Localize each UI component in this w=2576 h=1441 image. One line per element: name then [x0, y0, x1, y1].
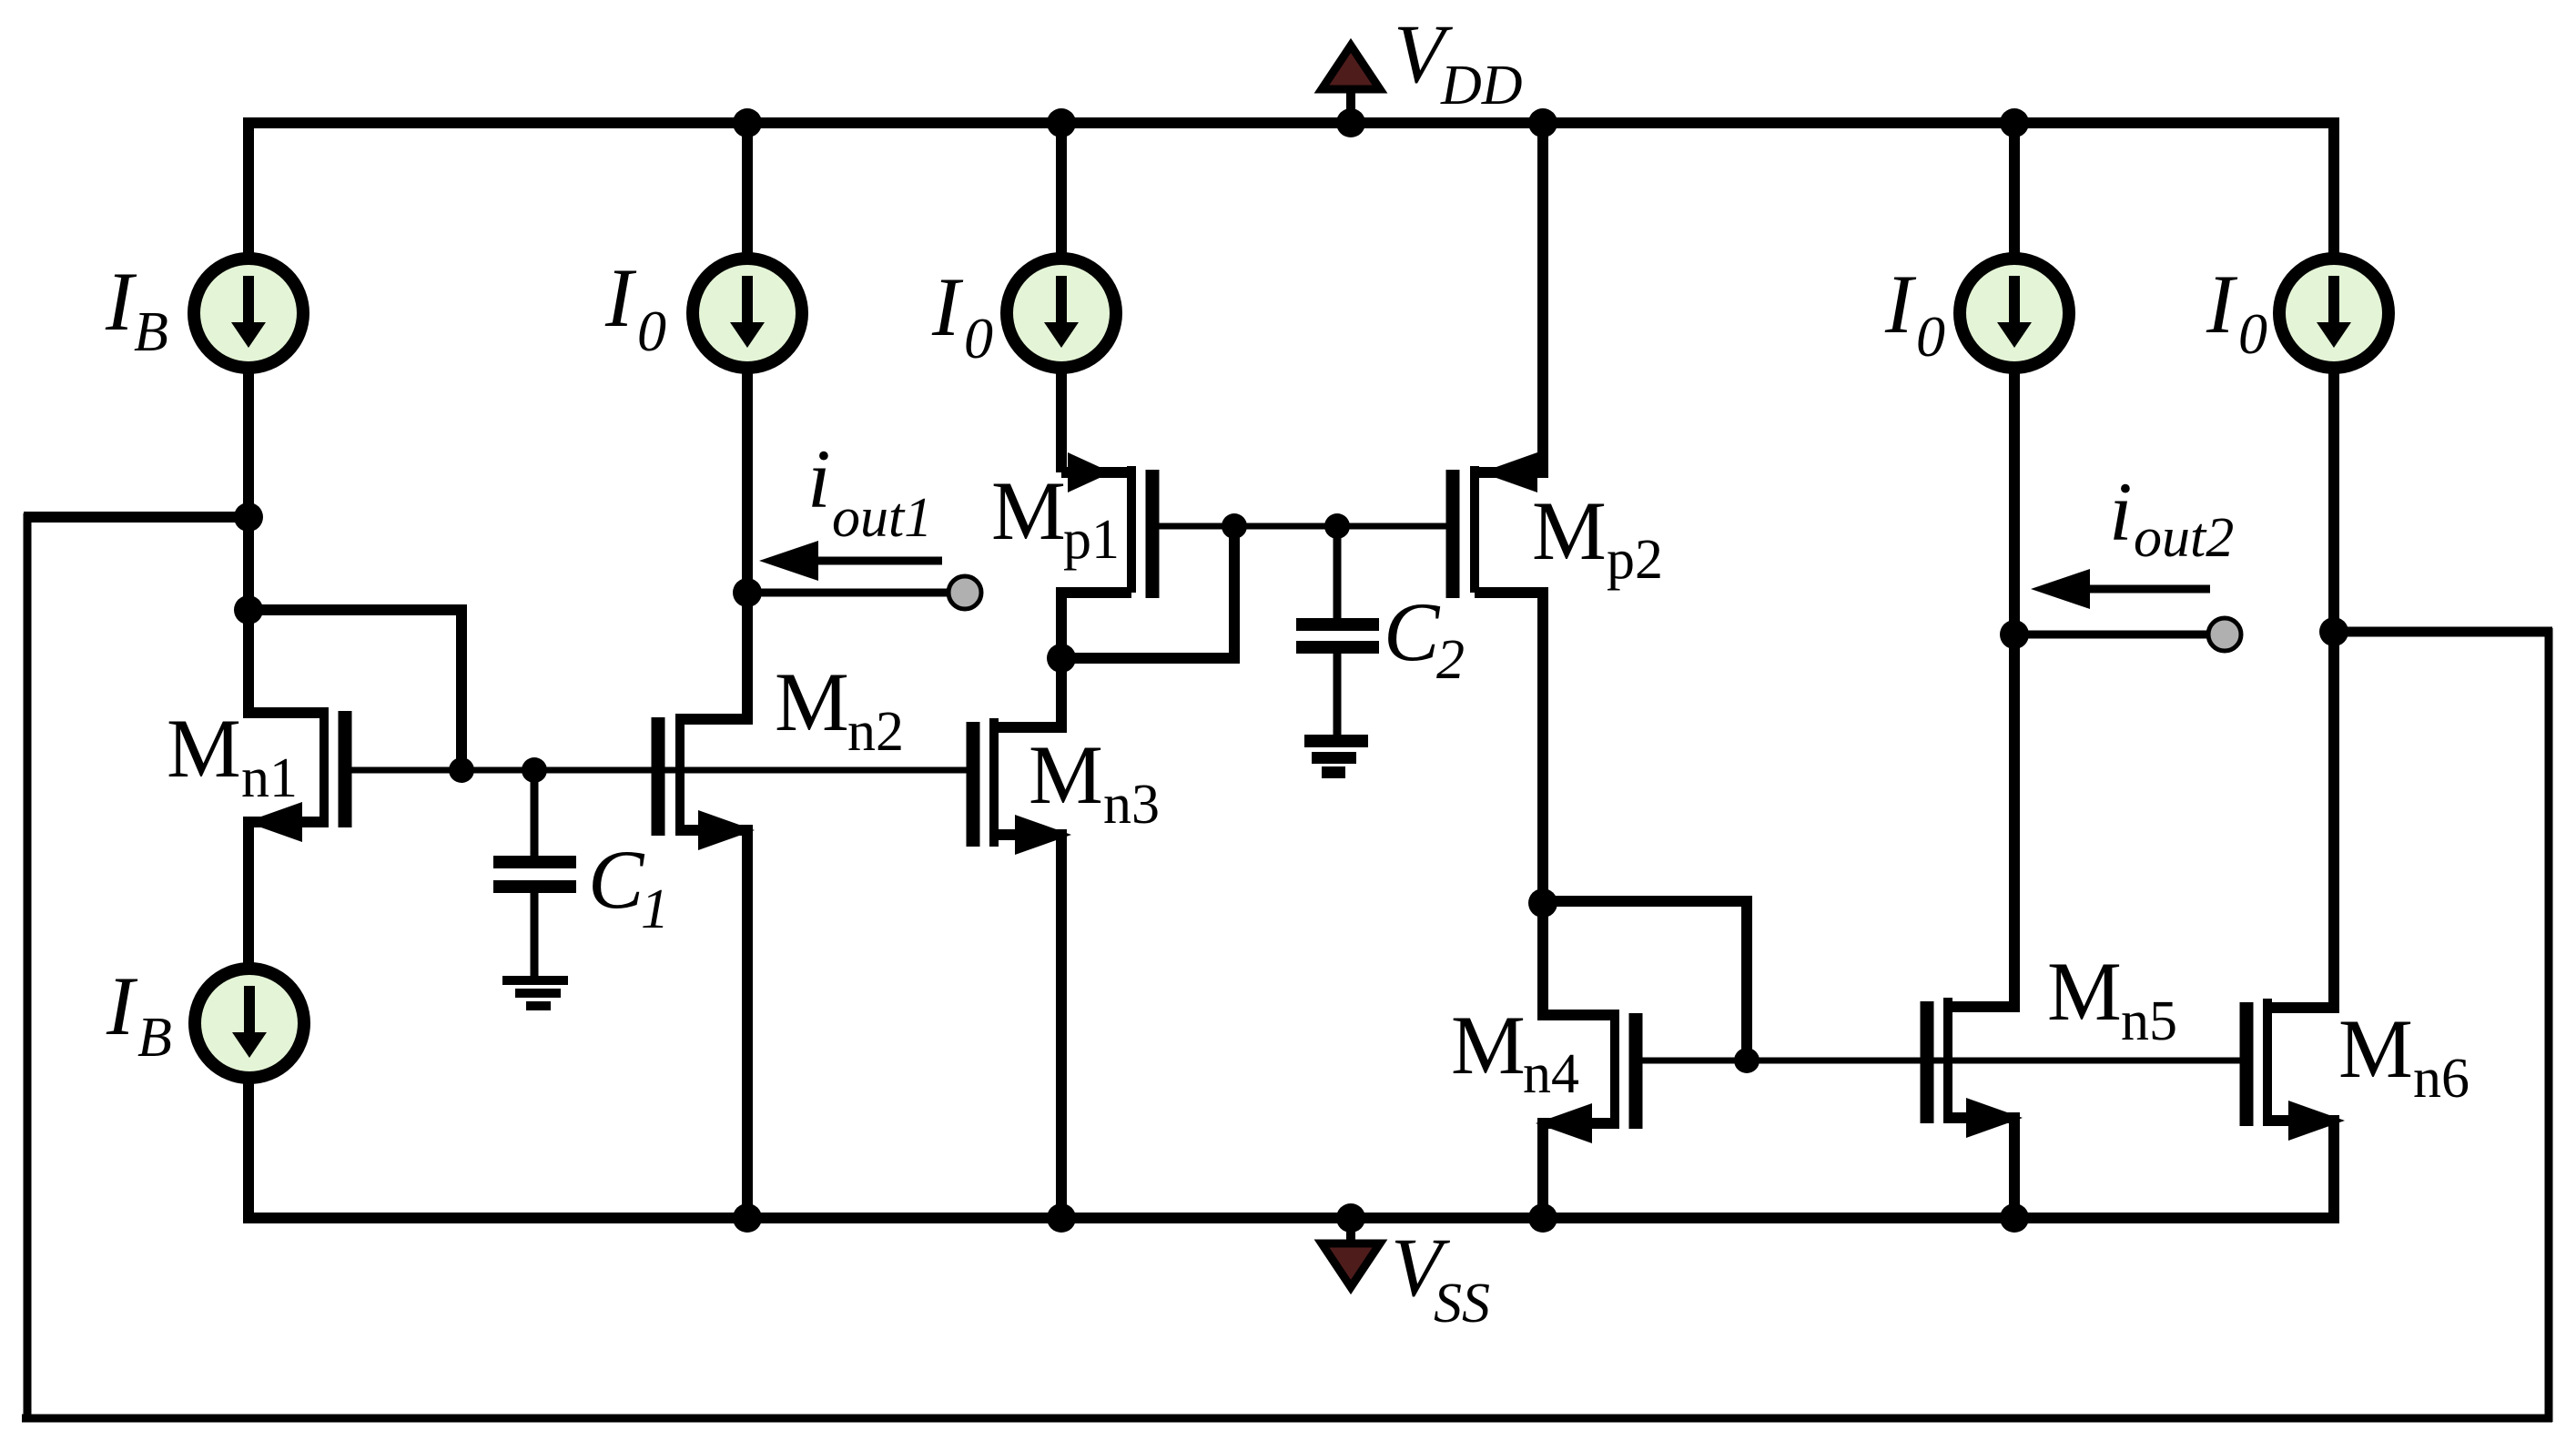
- wire gate net Mn1-Mn3: [351, 767, 967, 774]
- current source I0 b: [1007, 259, 1116, 368]
- svg-text:C: C: [1384, 585, 1441, 678]
- wire outer feedback left vertical: [24, 513, 32, 1422]
- wire I0 b to Mp1 source: [1056, 368, 1067, 472]
- svg-text:M: M: [167, 702, 241, 795]
- transistor Mn6 channel bar: [2263, 999, 2272, 1126]
- current source I0 d: [2279, 259, 2388, 368]
- capacitor C2: [1296, 526, 1379, 735]
- node VSS junction dot: [1336, 1203, 1365, 1233]
- node B junction dot (Mn1 gate tie): [234, 595, 263, 624]
- wire Mn4 drain: [1543, 899, 1615, 1015]
- wire Mp2 source: [1479, 123, 1543, 472]
- transistor Mp2 gate bar: [1446, 470, 1460, 598]
- arrow iout1: [759, 541, 942, 581]
- transistor Mn1 source arrow: [246, 802, 302, 842]
- wire Mn1 drain: [248, 610, 324, 713]
- ground C2: [1304, 735, 1368, 778]
- wire I0 a to Mn2 drain: [680, 368, 747, 719]
- transistor Mn5 channel bar: [1943, 998, 1952, 1123]
- transistor Mn3 channel bar: [989, 718, 999, 847]
- transistor Mn3 source arrow: [1015, 815, 1071, 855]
- transistor Mn2 channel bar: [675, 714, 685, 836]
- svg-text:n3: n3: [1103, 774, 1160, 836]
- svg-text:I: I: [106, 959, 138, 1052]
- wire Mn4 diode loop: [1543, 901, 1747, 1060]
- wire node A down: [243, 517, 254, 610]
- wire Mn6 drain: [2272, 632, 2334, 1008]
- wire iout1: [747, 589, 948, 597]
- svg-text:M: M: [775, 655, 849, 748]
- wire rail to I0 c: [2009, 123, 2020, 259]
- node I0b rail dot: [1047, 108, 1076, 137]
- svg-text:n4: n4: [1523, 1043, 1579, 1105]
- node VDD junction dot: [1336, 108, 1365, 137]
- svg-text:C: C: [588, 833, 645, 926]
- power VDD symbol: [1322, 46, 1380, 123]
- svg-text:SS: SS: [1434, 1273, 1490, 1334]
- transistor Mn4 source arrow: [1536, 1103, 1592, 1143]
- node Mn4 gate-line dot: [1734, 1048, 1760, 1073]
- wire Mn3 drain: [999, 658, 1061, 727]
- terminal iout1: [948, 576, 981, 609]
- current source IB top: [194, 259, 303, 368]
- svg-text:n5: n5: [2121, 990, 2177, 1052]
- wire gate net Mp1-Mp2: [1159, 523, 1447, 530]
- svg-text:out2: out2: [2134, 507, 2234, 569]
- transistor Mp1 source arrow: [1068, 452, 1111, 492]
- svg-text:0: 0: [1916, 304, 1945, 369]
- transistor Mn3 gate bar: [967, 722, 980, 847]
- terminal iout2: [2208, 618, 2241, 651]
- arrow iout2: [2031, 569, 2210, 609]
- wire Mp2 drain: [1475, 593, 1543, 903]
- svg-text:n1: n1: [241, 747, 298, 809]
- svg-text:1: 1: [641, 878, 669, 940]
- svg-text:0: 0: [637, 299, 666, 363]
- wire Mn1 source: [248, 822, 324, 964]
- transistor Mp1 gate bar: [1146, 470, 1160, 598]
- wire Mn5 source: [1948, 1118, 2014, 1218]
- current source IB bottom: [195, 969, 304, 1078]
- svg-text:I: I: [1884, 258, 1917, 350]
- svg-text:I: I: [604, 251, 637, 344]
- transistor Mn1 channel bar: [319, 707, 329, 827]
- transistor Mn4 gate bar: [1629, 1013, 1643, 1129]
- node iout2 junction dot: [2000, 620, 2029, 649]
- transistor Mn4 channel bar: [1610, 1010, 1619, 1129]
- wire outer feedback right horizontal: [2334, 627, 2552, 637]
- wire I0 d to Mn6 drain node: [2328, 368, 2339, 632]
- svg-text:DD: DD: [1440, 55, 1523, 117]
- node C1 junction dot: [522, 757, 547, 783]
- svg-text:p2: p2: [1607, 529, 1663, 591]
- svg-text:i: i: [2109, 465, 2133, 558]
- node Mn3 source rail dot: [1047, 1203, 1076, 1233]
- wire Mn3 source: [994, 835, 1061, 1218]
- transistor Mn5 source arrow: [1966, 1098, 2023, 1138]
- svg-text:0: 0: [2238, 301, 2267, 366]
- node Mn4 source rail dot: [1528, 1203, 1557, 1233]
- svg-text:M: M: [991, 464, 1066, 557]
- svg-text:I: I: [105, 255, 137, 348]
- transistor Mp2 source arrow: [1481, 452, 1537, 492]
- wire Mn4 source: [1543, 1123, 1615, 1218]
- current source I0 a: [693, 259, 802, 368]
- transistor Mn5 gate bar: [1921, 1001, 1934, 1123]
- svg-text:M: M: [1029, 728, 1103, 821]
- wire gate net Mn4-Mn6: [1642, 1058, 2240, 1064]
- wire iout2: [2014, 631, 2208, 639]
- svg-text:0: 0: [964, 306, 993, 370]
- power VSS symbol: [1322, 1218, 1380, 1287]
- transistor Mn1 gate bar: [339, 711, 352, 827]
- svg-text:2: 2: [1436, 629, 1465, 691]
- transistor Mn6 gate bar: [2240, 1002, 2254, 1126]
- node Mn2 source rail dot: [733, 1203, 762, 1233]
- svg-text:n6: n6: [2413, 1048, 2470, 1110]
- wire Mn5 drain: [1952, 634, 2014, 1007]
- node I0a rail dot: [733, 108, 762, 137]
- svg-text:I: I: [2206, 258, 2238, 350]
- node Mn6 drain junction dot: [2319, 617, 2348, 646]
- wire Mn1 diode loop: [248, 610, 461, 770]
- svg-text:p1: p1: [1063, 509, 1120, 571]
- node I0c rail dot: [2000, 108, 2029, 137]
- node Mp1 gate-line dot: [1222, 513, 1247, 539]
- node Mn4 drain junction dot: [1528, 888, 1557, 918]
- ground C1: [502, 976, 568, 1010]
- wire outer feedback right vertical: [2545, 628, 2553, 1422]
- transistor Mp2 channel bar: [1470, 466, 1479, 593]
- node C2 junction dot: [1324, 513, 1350, 539]
- svg-text:M: M: [2338, 1002, 2413, 1095]
- svg-text:out1: out1: [832, 487, 932, 549]
- svg-text:B: B: [137, 1007, 172, 1069]
- transistor Mn2 source arrow: [698, 810, 755, 850]
- wire Mp1 drain: [1061, 593, 1131, 658]
- capacitor C1: [493, 770, 576, 977]
- wire IB top to node A: [243, 368, 254, 517]
- node Mn1 gate-line dot: [449, 757, 474, 783]
- wire rail to I0 a: [742, 123, 753, 259]
- svg-text:B: B: [134, 301, 168, 363]
- node Mp2 source rail dot: [1528, 108, 1557, 137]
- transistor Mn6 source arrow: [2288, 1101, 2345, 1141]
- wire Mn6 source: [2267, 1121, 2334, 1218]
- wire I0 c to iout2 node: [2009, 368, 2020, 634]
- node A junction dot: [234, 502, 263, 532]
- wire Mn2 source: [680, 830, 747, 1218]
- node iout1 junction dot: [733, 578, 762, 607]
- wire VDD rail: [248, 123, 2334, 253]
- wire Mp1 diode loop: [1061, 526, 1234, 658]
- wire Mp1 source lead: [1061, 467, 1128, 478]
- current source I0 c: [1960, 259, 2069, 368]
- node Mp1 drain junction dot: [1047, 644, 1076, 673]
- wire outer feedback bottom: [22, 1415, 2552, 1423]
- svg-text:n2: n2: [847, 701, 904, 763]
- svg-text:i: i: [807, 432, 831, 525]
- svg-text:I: I: [931, 260, 964, 353]
- wire outer feedback left horizontal: [24, 512, 248, 523]
- svg-text:M: M: [2047, 945, 2122, 1038]
- node Mn5 source rail dot: [2000, 1203, 2029, 1233]
- wire VSS rail: [248, 1082, 2339, 1218]
- svg-text:M: M: [1451, 999, 1526, 1091]
- transistor Mn2 gate bar: [652, 717, 665, 836]
- wire rail to I0 b: [1056, 123, 1067, 259]
- transistor Mp1 channel bar: [1127, 466, 1136, 593]
- svg-text:M: M: [1532, 484, 1607, 577]
